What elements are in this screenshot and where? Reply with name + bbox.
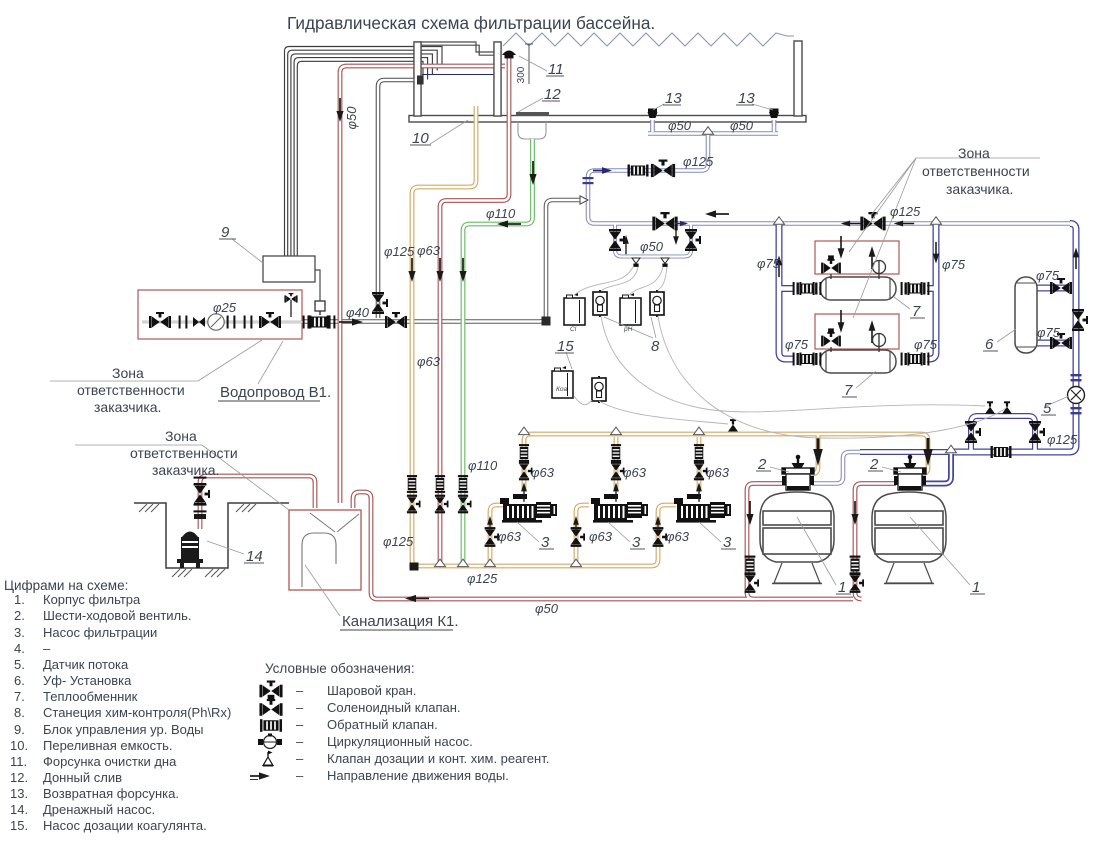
svg-text:заказчика.: заказчика.: [152, 462, 219, 478]
green pipe arrows: [529, 161, 536, 185]
svg-text:φ50: φ50: [640, 239, 664, 254]
svg-text:Переливная емкость.: Переливная емкость.: [43, 738, 173, 753]
dosing pump coagulant: [592, 376, 606, 403]
svg-text:Уф- Установка: Уф- Установка: [43, 673, 132, 688]
filter tank 1: [760, 492, 834, 584]
svg-text:3: 3: [541, 534, 550, 551]
svg-text:φ63: φ63: [589, 529, 613, 544]
pipe: overflow tank drain phi125 orange + suction manifold: [412, 106, 676, 566]
UV port valves: [1050, 278, 1072, 294]
svg-text:3.: 3.: [14, 625, 25, 640]
svg-text:Циркуляционный насос.: Циркуляционный насос.: [327, 734, 473, 749]
svg-text:10.: 10.: [10, 738, 28, 753]
svg-text:Цифрами на схеме:: Цифрами на схеме:: [4, 578, 128, 593]
svg-text:3: 3: [632, 534, 641, 551]
svg-text:заказчика.: заказчика.: [946, 181, 1013, 197]
svg-text:1: 1: [972, 579, 980, 596]
six way valve 2: [894, 455, 926, 491]
navy flow arrow on return: [593, 167, 612, 174]
svg-text:φ25: φ25: [213, 300, 237, 315]
pipe: filter1 waste drop red: [747, 484, 786, 600]
drainage pump 14: [177, 532, 203, 569]
pipe: filter2 waste drop red: [855, 484, 896, 600]
zone box heat exchanger 2: [815, 314, 899, 349]
sewer line flow arrow: [405, 595, 429, 602]
sampling probes: [632, 258, 640, 267]
pipe: return line phi125 blue: [588, 135, 708, 217]
svg-text:Канализация К1.: Канализация К1.: [342, 613, 459, 630]
chem canister pH: [620, 293, 641, 325]
level sensor bundle wires: [285, 47, 443, 257]
svg-text:12: 12: [544, 86, 561, 103]
svg-text:Гидравлическая схема фильтраци: Гидравлическая схема фильтрации бассейна…: [287, 13, 655, 33]
svg-text:Зона: Зона: [165, 428, 197, 444]
svg-text:φ125: φ125: [683, 154, 714, 169]
svg-text:Cl: Cl: [570, 326, 577, 333]
pipe: pump2 suction orange: [576, 505, 589, 565]
big down arrows into six way valves: [813, 438, 823, 466]
pipe: heat exchanger left header phi75: [779, 224, 793, 359]
legend symbols: [259, 681, 282, 698]
svg-text:12.: 12.: [10, 770, 28, 785]
svg-text:Направление движения воды.: Направление движения воды.: [327, 768, 509, 783]
riser up arrows: [521, 483, 527, 502]
pipe: right riser + bypass lower navy: [954, 224, 1076, 453]
svg-text:7.: 7.: [14, 689, 25, 704]
svg-text:1.: 1.: [14, 592, 25, 607]
svg-text:Форсунка очистки дна: Форсунка очистки дна: [43, 754, 177, 769]
svg-text:Соленоидный клапан.: Соленоидный клапан.: [327, 700, 461, 715]
solenoid fill valve with control box: [315, 301, 325, 311]
pipe: six-way valve1 feed drop orange: [804, 434, 818, 474]
valve on phi40 riser: [372, 292, 388, 314]
flanges around flow sensor: [1071, 374, 1082, 414]
check+ball on orange drop: [407, 475, 417, 493]
tiny chem labels: [556, 326, 633, 393]
svg-text:6.: 6.: [14, 673, 25, 688]
svg-text:φ63: φ63: [417, 243, 441, 258]
svg-text:Блок управления ур. Воды: Блок управления ур. Воды: [43, 722, 204, 737]
floor drain grate 12: [516, 112, 549, 116]
soil hatches: [139, 504, 256, 577]
strainer: [193, 317, 205, 327]
svg-text:φ63: φ63: [417, 354, 441, 369]
svg-text:4.: 4.: [14, 641, 25, 656]
svg-text:φ125: φ125: [383, 534, 414, 549]
filter waste down arrows: [746, 501, 753, 525]
svg-text:11.: 11.: [10, 754, 27, 769]
pipe: six-way valve2 outlet navy: [922, 452, 951, 484]
return line valves: [628, 165, 649, 177]
drain faucet: [290, 300, 292, 317]
loop top valves: [652, 212, 677, 230]
svg-text:φ125: φ125: [384, 244, 415, 259]
svg-text:φ63: φ63: [531, 465, 555, 480]
svg-text:заказчика.: заказчика.: [94, 399, 161, 415]
svg-text:Донный слив: Донный слив: [43, 770, 122, 785]
pipe: water supply phi40 black: [303, 200, 580, 322]
water meter: [208, 314, 224, 330]
svg-text:15: 15: [557, 338, 574, 355]
svg-text:φ75: φ75: [1036, 268, 1060, 283]
return nozzles 13: [648, 109, 780, 119]
svg-text:φ63: φ63: [498, 529, 522, 544]
check+ball on red drop: [435, 475, 445, 493]
svg-text:2.: 2.: [14, 608, 25, 623]
pump riser valves: [519, 444, 529, 462]
pipe: HX1 left branch: [779, 285, 793, 292]
svg-text:–: –: [296, 700, 304, 715]
svg-text:8: 8: [651, 338, 660, 355]
svg-text:11: 11: [548, 61, 564, 78]
UV unit 6: [1015, 277, 1037, 353]
sewer box funnel: [310, 513, 359, 532]
zone box water supply: [138, 290, 302, 339]
number labels: [221, 61, 1052, 596]
dim bracket 300: [528, 44, 530, 84]
pipe: phi50 red to sewer: [340, 66, 505, 503]
pipe: six-way valve1 outlet blue: [812, 452, 860, 484]
pump 3 assemblies: [500, 494, 557, 523]
redraw tank walls over pipes: [414, 42, 421, 116]
water supply thin pipe: [142, 321, 303, 324]
dosing pump pH: [650, 290, 664, 317]
dosing pump Cl: [593, 290, 607, 317]
svg-text:Условные обозначения:: Условные обозначения:: [265, 661, 415, 676]
HX zone box internals 2: [821, 310, 885, 352]
svg-text:ответственности: ответственности: [77, 382, 185, 398]
svg-text:14: 14: [246, 548, 263, 565]
chem canister Cl: [564, 293, 585, 325]
pipe: bottom drain phi110 green: [463, 139, 533, 564]
svg-text:φ75: φ75: [1037, 325, 1061, 340]
pipe: UV bottom port phi75: [1037, 340, 1072, 347]
mushroom nozzle 11: [502, 51, 516, 56]
svg-text:φ110: φ110: [468, 458, 498, 473]
svg-text:φ50: φ50: [344, 106, 359, 130]
svg-text:–: –: [296, 751, 304, 766]
svg-text:φ75: φ75: [785, 337, 809, 352]
svg-text:–: –: [296, 734, 304, 749]
svg-text:–: –: [296, 683, 304, 698]
pipe: drainage pump discharge red: [200, 476, 315, 529]
svg-text:pH: pH: [623, 326, 633, 333]
svg-text:φ110: φ110: [486, 206, 516, 221]
bypass loop valves: [965, 421, 981, 443]
pipe: backwash sewer line phi50 red: [353, 492, 853, 599]
ball valve supply 2: [259, 312, 281, 328]
water level line in tank: [422, 74, 494, 76]
svg-text:13: 13: [665, 90, 682, 107]
hollow connector arrow: [580, 196, 588, 204]
flange on return riser: [583, 177, 594, 184]
svg-text:φ50: φ50: [535, 601, 559, 616]
svg-text:Насос дозации коагулянта.: Насос дозации коагулянта.: [43, 818, 207, 833]
zone text left 1: [77, 365, 185, 415]
pipe: sampling chamber loop phi50: [615, 224, 691, 257]
pipe: pump discharge manifold phi63 orange: [524, 434, 928, 492]
flange: [244, 316, 253, 329]
dosing valve on manifold: [728, 419, 738, 431]
HX1 valves: [793, 282, 822, 295]
control unit 9: [263, 256, 315, 282]
drainage pump pipe fittings: [194, 477, 207, 486]
svg-text:6: 6: [985, 336, 994, 353]
svg-text:2: 2: [757, 456, 767, 473]
elbow fitting at supply riser base: [542, 317, 551, 326]
ball valve phi40: [385, 312, 407, 328]
riser valve between UV ports: [1072, 309, 1088, 331]
svg-text:7: 7: [912, 303, 921, 320]
HX zone box internals 1: [821, 236, 885, 279]
svg-text:Станеция хим-контроля(Ph\Rx): Станеция хим-контроля(Ph\Rx): [43, 705, 231, 720]
loop flow arrows: [705, 210, 729, 217]
pipe: pump2 riser orange: [614, 437, 619, 492]
suction valves: [485, 527, 499, 547]
ground line and drainage pit: [134, 503, 289, 568]
svg-text:Дренажный насос.: Дренажный насос.: [43, 802, 155, 817]
sewer box K1 red outline: [289, 510, 361, 590]
svg-text:–: –: [296, 717, 304, 732]
svg-text:1: 1: [838, 579, 846, 596]
pipe: cleaning nozzle riser red: [440, 57, 509, 562]
zone text top right: [922, 145, 1030, 197]
svg-text:5: 5: [1043, 400, 1052, 417]
svg-text:Шаровой кран.: Шаровой кран.: [327, 683, 416, 698]
sampling valves: [609, 229, 625, 251]
zone text left 2: [130, 428, 238, 478]
svg-text:Возвратная форсунка.: Возвратная форсунка.: [43, 786, 179, 801]
svg-text:φ75: φ75: [757, 256, 781, 271]
svg-text:φ125: φ125: [890, 204, 921, 219]
svg-text:ответственности: ответственности: [922, 163, 1030, 179]
svg-text:Клапан дозации и конт. хим. ре: Клапан дозации и конт. хим. реагент.: [327, 751, 549, 766]
svg-text:ответственности: ответственности: [130, 445, 238, 461]
svg-text:φ125: φ125: [467, 571, 498, 586]
svg-text:Теплообменник: Теплообменник: [43, 689, 138, 704]
bottom drain sump: [518, 122, 546, 139]
svg-text:–: –: [43, 641, 51, 656]
pipe: pump1 suction orange: [490, 505, 503, 565]
pipe: heat exchanger right header phi75: [927, 224, 936, 359]
HX header arrows: [776, 256, 782, 278]
svg-text:Корпус фильтра: Корпус фильтра: [43, 592, 141, 607]
svg-text:φ125: φ125: [1047, 432, 1078, 447]
svg-text:15.: 15.: [10, 818, 28, 833]
svg-text:5.: 5.: [14, 657, 25, 672]
ball valve supply 1: [149, 312, 171, 328]
pool right wall: [794, 41, 802, 116]
svg-text:Зона: Зона: [958, 145, 990, 161]
pipe: pump3 riser orange: [697, 437, 702, 492]
flow sensor 5: [1068, 387, 1085, 404]
svg-text:Зона: Зона: [112, 365, 144, 381]
svg-text:Шести-ходовой вентиль.: Шести-ходовой вентиль.: [43, 608, 192, 623]
overflow tank 10 top edge with weir step: [414, 42, 494, 52]
pipe: HX1 right branch: [927, 285, 936, 292]
svg-text:13.: 13.: [10, 786, 28, 801]
pipe: UV top port phi75: [1037, 285, 1072, 292]
suction up arrows: [487, 516, 493, 535]
pipe: chemical bypass loop blue: [971, 416, 1035, 450]
zone box heat exchanger 1: [815, 241, 899, 274]
svg-text:Насос фильтрации: Насос фильтрации: [43, 625, 157, 640]
svg-text:–: –: [296, 768, 304, 783]
svg-text:8.: 8.: [14, 705, 25, 720]
six way valve 1: [782, 455, 814, 491]
svg-text:φ40: φ40: [346, 305, 370, 320]
dosing tubes: [574, 267, 1006, 438]
svg-text:φ75: φ75: [914, 337, 938, 352]
fitting at manifold elbow: [410, 563, 419, 571]
heat exchanger 1: [820, 277, 896, 300]
pipe: phi40 riser black: [378, 80, 421, 318]
svg-text:Датчик потока: Датчик потока: [43, 657, 129, 672]
phi40 pipe end flange at tank: [417, 76, 424, 85]
svg-text:φ63: φ63: [706, 465, 730, 480]
flange: [179, 316, 188, 329]
svg-text:9: 9: [221, 224, 230, 241]
pipe: main loop top blue: [588, 217, 1070, 224]
manifold tees: [519, 427, 530, 435]
control wire from unit 9 to solenoid: [315, 270, 320, 301]
svg-text:2: 2: [869, 456, 879, 473]
svg-text:φ63: φ63: [623, 465, 647, 480]
svg-text:14.: 14.: [10, 802, 28, 817]
down arrows on drops: [408, 258, 415, 282]
pipe: bypass feed navy: [860, 449, 954, 455]
heat exchanger 2: [820, 350, 896, 373]
svg-text:φ50: φ50: [668, 118, 692, 133]
svg-text:Обратный клапан.: Обратный клапан.: [327, 717, 438, 732]
svg-text:φ63: φ63: [666, 529, 690, 544]
flow arrow on supply: [339, 318, 363, 325]
svg-text:φ50: φ50: [730, 118, 754, 133]
filter tank 2: [872, 492, 946, 584]
bypass dosing valves: [985, 401, 995, 413]
svg-text:7: 7: [844, 382, 853, 399]
pipe: nozzle manifold phi50 blue: [648, 131, 778, 136]
number underlines: [219, 76, 1056, 594]
flange: [227, 316, 236, 329]
filter waste valves: [745, 556, 756, 575]
bypass check valve: [991, 446, 1012, 458]
diameter labels: [213, 66, 1078, 616]
svg-text:9.: 9.: [14, 722, 25, 737]
svg-text:φ75: φ75: [942, 257, 966, 272]
overflow tank 10 left wall: [414, 42, 421, 116]
sewer box trap: [302, 533, 336, 587]
svg-text:13: 13: [738, 90, 755, 107]
svg-text:Коа: Коа: [556, 386, 567, 393]
svg-text:10: 10: [412, 130, 429, 147]
pool waterline zigzag: [503, 33, 794, 46]
svg-text:Водопровод В1.: Водопровод В1.: [220, 384, 331, 401]
check+ball on green drop: [458, 475, 468, 493]
pool floor: [409, 116, 806, 123]
overflow tank 10 right wall: [494, 42, 501, 116]
leader lines: [50, 56, 1069, 616]
chem canister coagulant: [552, 366, 573, 398]
red phi50 down arrow: [336, 98, 343, 122]
svg-text:300: 300: [516, 66, 527, 83]
svg-text:3: 3: [723, 534, 732, 551]
pipe: return nozzle stems blue: [653, 120, 775, 132]
